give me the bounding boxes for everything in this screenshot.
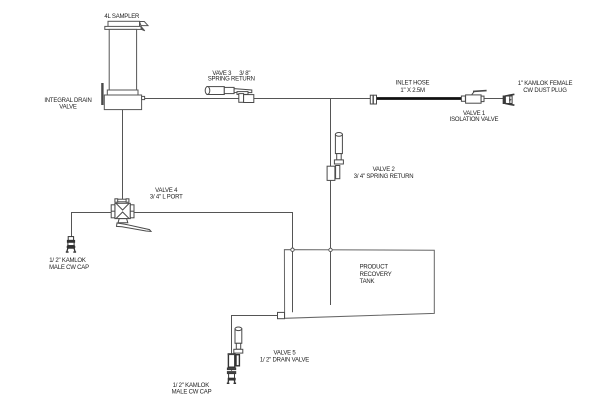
valve 5 body: [228, 354, 239, 367]
inlet hose (thick): [377, 97, 462, 100]
sampler mounting bracket: [101, 83, 103, 105]
svg-text:3/ 4" SPRING RETURN: 3/ 4" SPRING RETURN: [354, 174, 414, 180]
branch pipe down to valve 2 / tank: [330, 99, 332, 306]
hose end connector: [370, 95, 376, 104]
valve 3 spring-return actuator: [205, 87, 252, 95]
svg-text:4L SAMPLER: 4L SAMPLER: [104, 14, 140, 20]
valve 2 body: [327, 166, 340, 181]
pipe: tank drain to valve 5: [232, 316, 278, 354]
pipe: sampler base to main line: [145, 98, 371, 100]
svg-text:1/ 2" KAMLOK: 1/ 2" KAMLOK: [49, 258, 86, 264]
1/2" kamlok male cap (left): [66, 237, 76, 253]
svg-text:1" X 2.5M: 1" X 2.5M: [400, 88, 425, 94]
valve 5 outlet stem: [231, 367, 233, 370]
tank drain outlet square: [278, 312, 285, 318]
node: tank inlet from valve 4: [291, 248, 294, 251]
kamlok female with dust plug: [503, 94, 514, 105]
svg-text:VALVE 1: VALVE 1: [463, 111, 486, 117]
pipe: valve 1 to kamlok female: [484, 98, 503, 100]
svg-text:INTEGRAL DRAIN: INTEGRAL DRAIN: [44, 98, 91, 104]
svg-text:1" KAMLOK FEMALE: 1" KAMLOK FEMALE: [518, 81, 573, 87]
svg-text:1/ 2" DRAIN VALVE: 1/ 2" DRAIN VALVE: [260, 358, 309, 364]
svg-text:VALVE 2: VALVE 2: [373, 167, 396, 173]
pipe: valve 4 right to tank: [134, 213, 293, 250]
node: tank inlet from valve 2: [329, 248, 332, 251]
svg-text:VALVE: VALVE: [59, 104, 77, 110]
svg-text:PRODUCT: PRODUCT: [360, 265, 389, 271]
valve 5 lower union fitting: [227, 368, 235, 378]
svg-text:TANK: TANK: [360, 279, 375, 285]
valve 4 three-way L-port valve: [111, 199, 151, 232]
svg-text:MALE CW CAP: MALE CW CAP: [172, 390, 212, 396]
svg-text:CW DUST PLUG: CW DUST PLUG: [523, 88, 567, 94]
pipe: dip tube from valve 4 inside tank: [292, 251, 294, 313]
svg-text:INLET HOSE: INLET HOSE: [396, 80, 430, 86]
svg-text:ISOLATION VALVE: ISOLATION VALVE: [450, 117, 499, 123]
product recovery tank: [284, 250, 434, 319]
4L sampler vessel: [104, 21, 148, 109]
svg-text:1/ 2" KAMLOK: 1/ 2" KAMLOK: [173, 383, 210, 389]
svg-text:RECOVERY: RECOVERY: [360, 272, 392, 278]
valve 5 spring-return actuator: [234, 327, 243, 353]
valve 1 isolation valve: [461, 91, 486, 104]
1/2" kamlok male cap (bottom): [227, 378, 236, 383]
valve 2 spring-return actuator: [334, 133, 343, 165]
valve 3 body: [239, 94, 254, 103]
svg-text:3/ 4" L PORT: 3/ 4" L PORT: [150, 195, 183, 201]
pipe: sampler down to valve 4: [122, 110, 124, 200]
svg-text:VALVE 5: VALVE 5: [273, 351, 296, 357]
pipe: dip tube from valve 2 inside tank: [330, 251, 332, 306]
valve 5 body top cap: [228, 353, 236, 355]
svg-text:SPRING RETURN: SPRING RETURN: [208, 76, 255, 82]
svg-text:VALVE 4: VALVE 4: [155, 188, 178, 194]
pipe: valve 4 left to kamlok cap: [72, 213, 112, 237]
svg-text:MALE CW CAP: MALE CW CAP: [49, 265, 89, 271]
